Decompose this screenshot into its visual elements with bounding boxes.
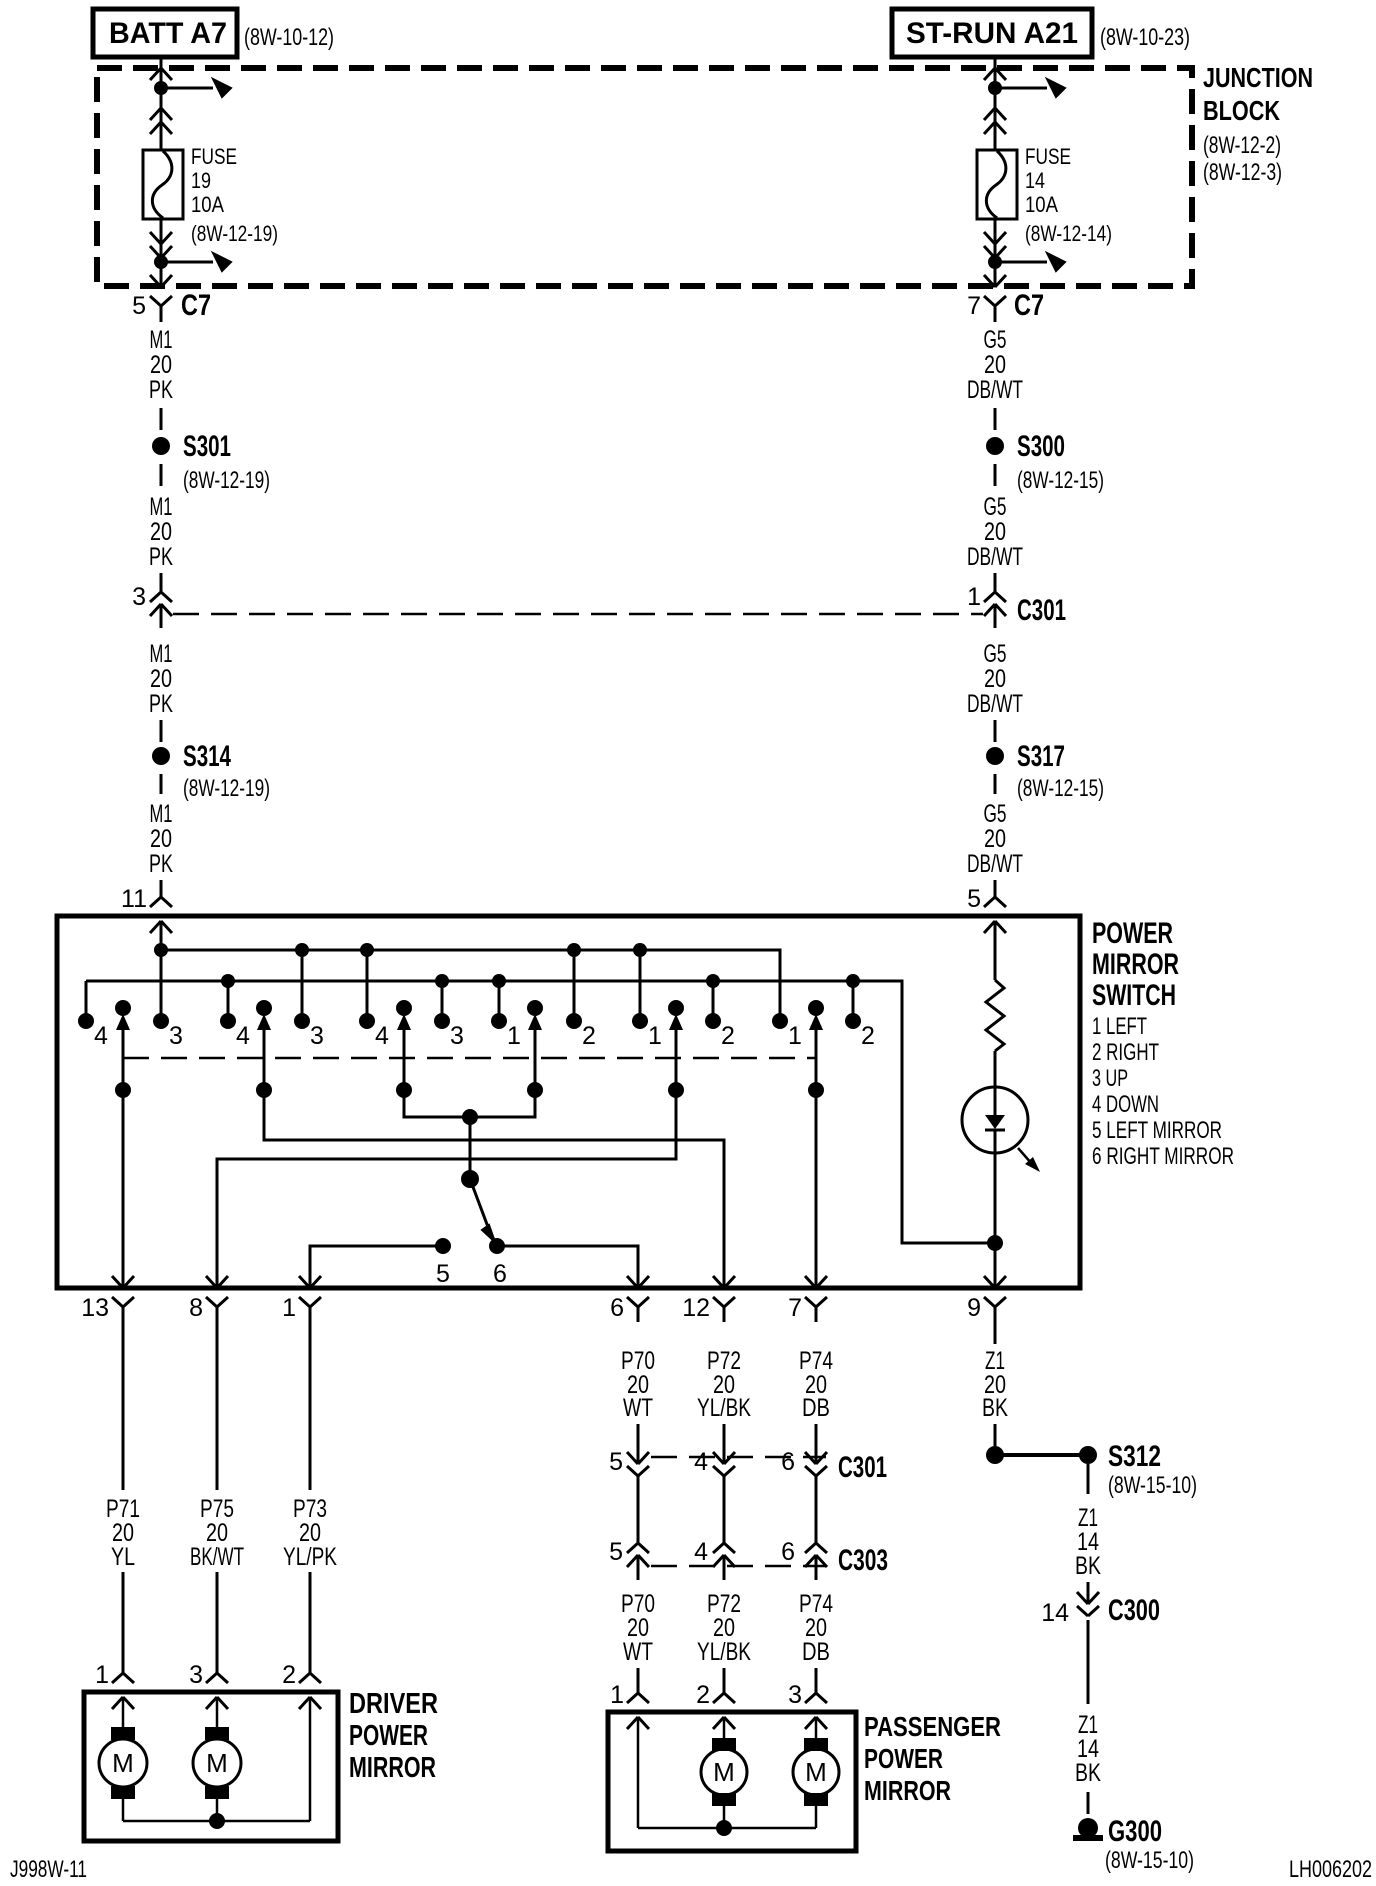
wire C300 down: [1087, 1620, 1090, 1704]
svg-text:(8W-10-23): (8W-10-23): [1100, 24, 1190, 51]
contact 6 wire to pin 6: [497, 1246, 638, 1288]
wire fuse 19 output: [160, 219, 163, 287]
svg-text:M: M: [112, 1748, 134, 1778]
node splice (right bottom): [988, 255, 1002, 269]
svg-text:S317: S317: [1017, 740, 1065, 773]
svg-text:G5: G5: [984, 326, 1007, 354]
switch pin 9 exit: [984, 1276, 995, 1288]
wire segment: [160, 774, 163, 794]
wire label G5 20 DB/WT (fourth right): [967, 800, 1023, 878]
wire segment: [994, 774, 997, 794]
wire resistor to LED: [994, 1051, 997, 1087]
power mirror switch label: [1092, 917, 1234, 1170]
lower bus left drop to contact 4: [85, 981, 88, 1021]
svg-text:1: 1: [95, 1661, 109, 1689]
svg-text:3 UP: 3 UP: [1092, 1065, 1128, 1092]
svg-text:DB: DB: [802, 1394, 830, 1422]
wire label Z1 20 BK: [982, 1347, 1008, 1422]
svg-text:6: 6: [610, 1294, 624, 1322]
passenger power mirror box: [608, 1712, 856, 1851]
wire segment: [160, 464, 163, 486]
svg-text:M: M: [805, 1757, 827, 1787]
selector blade: [470, 1179, 495, 1242]
svg-text:6 RIGHT MIRROR: 6 RIGHT MIRROR: [1092, 1143, 1234, 1170]
wire labels P70/P72/P74 (upper): [621, 1347, 833, 1422]
arm 6 wire to pin 7: [815, 1090, 818, 1288]
driver mirror pin 2 entry: [309, 1653, 312, 1673]
svg-text:J998W-11: J998W-11: [10, 1856, 87, 1883]
arm 1 wire to pin 13: [122, 1090, 125, 1288]
svg-text:19: 19: [191, 168, 211, 193]
feed box ST-RUN A21: [892, 9, 1092, 57]
svg-text:2: 2: [861, 1022, 875, 1050]
driver mirror pin 3 entry: [216, 1653, 219, 1673]
svg-text:DB/WT: DB/WT: [967, 543, 1023, 571]
svg-text:5 LEFT MIRROR: 5 LEFT MIRROR: [1092, 1117, 1222, 1144]
svg-text:(8W-12-19): (8W-12-19): [191, 221, 278, 246]
svg-text:YL/BK: YL/BK: [697, 1394, 751, 1422]
svg-text:11: 11: [121, 885, 147, 913]
selector contact 6: [489, 1238, 507, 1288]
svg-text:MIRROR: MIRROR: [864, 1775, 951, 1806]
svg-text:10A: 10A: [1025, 192, 1058, 217]
feed bus (upper bus): [161, 950, 780, 1021]
C303 dashed tie line: [651, 1565, 826, 1568]
svg-text:5: 5: [132, 292, 146, 320]
arm 2 wire to pin 12: [264, 1090, 724, 1288]
wire label G5 20 DB/WT (top right): [967, 326, 1023, 404]
fuse 14 label: [1025, 144, 1112, 246]
switch pin 1 exit: [299, 1276, 310, 1288]
svg-text:G5: G5: [984, 640, 1007, 668]
driver power mirror box: [84, 1692, 338, 1841]
passenger mirror motor 2 (left/right): [793, 1717, 839, 1828]
svg-text:JUNCTION: JUNCTION: [1203, 62, 1313, 93]
driver mirror common wire: [123, 1697, 310, 1821]
connector C300 pin 14: [1041, 1592, 1160, 1627]
svg-text:BK/WT: BK/WT: [190, 1543, 244, 1571]
connector C301 pin 3 (left): [132, 573, 172, 628]
wire LED to pin 9: [994, 1153, 997, 1288]
splice S314: [152, 740, 231, 773]
svg-text:M: M: [713, 1757, 735, 1787]
svg-text:BK: BK: [982, 1394, 1008, 1422]
junction block dashed outline: [97, 68, 1192, 286]
connector C301 row: [609, 1448, 887, 1490]
svg-text:4: 4: [694, 1538, 708, 1566]
svg-text:14: 14: [1025, 168, 1045, 193]
svg-text:S300: S300: [1017, 430, 1065, 463]
svg-text:20: 20: [984, 518, 1006, 546]
passenger mirror motor 1 (up/down): [701, 1717, 747, 1828]
svg-text:20: 20: [984, 351, 1006, 379]
svg-text:(8W-15-10): (8W-15-10): [1105, 1847, 1194, 1874]
svg-text:20: 20: [150, 518, 172, 546]
svg-text:M: M: [206, 1748, 228, 1778]
svg-text:PK: PK: [149, 543, 173, 571]
svg-text:(8W-12-2): (8W-12-2): [1203, 132, 1281, 159]
svg-text:DB/WT: DB/WT: [967, 850, 1023, 878]
svg-text:POWER: POWER: [1092, 917, 1173, 950]
svg-text:6: 6: [781, 1448, 795, 1476]
svg-text:3: 3: [310, 1022, 324, 1050]
selector common tie: [404, 1090, 535, 1179]
svg-text:1: 1: [507, 1022, 521, 1050]
connector C7 pin 5: [132, 275, 211, 322]
svg-text:M1: M1: [150, 326, 173, 354]
wire segment: [1087, 1464, 1090, 1494]
wire segment: [1087, 1582, 1090, 1604]
driver mirror label: [349, 1688, 438, 1784]
wire ST-RUN A21 to junction block: [994, 57, 997, 68]
svg-text:2: 2: [696, 1681, 710, 1709]
svg-text:PK: PK: [149, 376, 173, 404]
svg-text:BLOCK: BLOCK: [1203, 95, 1280, 126]
wire label M1 20 PK (top left): [149, 326, 173, 404]
svg-text:20: 20: [984, 665, 1006, 693]
svg-text:4: 4: [236, 1022, 250, 1050]
svg-text:12: 12: [682, 1294, 710, 1322]
svg-text:1: 1: [648, 1022, 662, 1050]
wire labels P71/P75/P73: [106, 1495, 337, 1571]
wires to driver mirror: [123, 1572, 310, 1655]
fuse 19 label: [191, 144, 278, 246]
svg-text:DB: DB: [802, 1638, 830, 1666]
svg-text:20: 20: [150, 665, 172, 693]
fixed contacts of switch: [78, 1013, 875, 1050]
svg-text:PASSENGER: PASSENGER: [864, 1711, 1001, 1742]
chevron into junction block (left): [150, 68, 161, 80]
svg-text:G5: G5: [984, 493, 1007, 521]
svg-text:PK: PK: [149, 690, 173, 718]
passenger mirror label: [864, 1711, 1001, 1806]
svg-text:C7: C7: [1014, 289, 1044, 322]
svg-text:2: 2: [721, 1022, 735, 1050]
svg-text:C300: C300: [1108, 1594, 1160, 1627]
svg-text:(8W-12-19): (8W-12-19): [183, 467, 270, 494]
connector C7 pin 7: [967, 275, 1044, 322]
switch pin 13 exit: [112, 1276, 123, 1288]
svg-text:MIRROR: MIRROR: [349, 1752, 436, 1784]
svg-text:G5: G5: [984, 800, 1007, 828]
svg-text:1: 1: [610, 1681, 624, 1709]
wire segment: [1087, 1792, 1090, 1814]
wire BATT A7 to junction block: [160, 57, 163, 68]
svg-text:4: 4: [375, 1022, 389, 1050]
selector contact 5: [435, 1238, 451, 1288]
ground G300: [1073, 1815, 1162, 1848]
svg-text:3: 3: [132, 583, 146, 611]
splice S312: [986, 1440, 1161, 1473]
wire fuse 14 output: [994, 219, 997, 287]
driver mirror motor 1 (up/down): [99, 1697, 147, 1821]
wire to fuse 14: [994, 68, 997, 150]
wire segment: [160, 408, 163, 430]
svg-text:5: 5: [609, 1538, 623, 1566]
svg-text:MIRROR: MIRROR: [1092, 948, 1179, 981]
svg-text:(8W-12-19): (8W-12-19): [183, 775, 270, 802]
switch pin 7 exit: [805, 1276, 816, 1288]
fuse F19 symbol: [143, 150, 183, 219]
wires C301 to C303: [638, 1490, 816, 1543]
svg-text:PK: PK: [149, 850, 173, 878]
node splice (left bottom): [154, 255, 168, 269]
svg-text:14: 14: [1041, 1599, 1069, 1627]
svg-text:10A: 10A: [191, 192, 224, 217]
verticals from buses to fixed contacts: [161, 950, 853, 1021]
svg-text:ST-RUN A21: ST-RUN A21: [906, 17, 1078, 50]
connector C301 dashed tie line: [173, 613, 983, 616]
selector pivot: [461, 1170, 479, 1188]
movable contact arms: [115, 1000, 824, 1098]
svg-text:YL: YL: [111, 1543, 135, 1571]
svg-text:DB/WT: DB/WT: [967, 376, 1023, 404]
svg-text:(8W-12-3): (8W-12-3): [1203, 159, 1282, 186]
node splice in junction block (right top): [988, 81, 1002, 95]
svg-text:3: 3: [450, 1022, 464, 1050]
svg-text:(8W-12-15): (8W-12-15): [1017, 467, 1104, 494]
C301 dashed tie line: [651, 1456, 826, 1459]
bus junction dots (upper): [154, 943, 168, 957]
driver mirror motor 2 (left/right): [193, 1697, 241, 1821]
power mirror switch box outline: [57, 916, 1080, 1288]
svg-text:LH006202: LH006202: [1289, 1856, 1372, 1883]
svg-text:G300: G300: [1108, 1815, 1162, 1848]
node LED return: [987, 1235, 1003, 1251]
branch arrow (right top): [995, 87, 1047, 90]
svg-text:6: 6: [781, 1538, 795, 1566]
svg-text:M1: M1: [150, 800, 173, 828]
svg-text:YL/BK: YL/BK: [697, 1638, 751, 1666]
illumination resistor: [986, 921, 1004, 1051]
mechanical coupling dashed line: [123, 1057, 816, 1060]
splice S317: [986, 740, 1065, 773]
svg-text:BATT A7: BATT A7: [109, 17, 227, 50]
junction block label: [1203, 62, 1313, 186]
wire labels P70/P72/P74 (lower): [621, 1590, 833, 1666]
svg-text:5: 5: [967, 885, 981, 913]
node splice in junction block (left top): [154, 81, 168, 95]
wire segment: [994, 408, 997, 430]
svg-text:20: 20: [150, 351, 172, 379]
branch arrow (left bottom): [161, 261, 213, 264]
wire label G5 20 DB/WT (third right): [967, 640, 1023, 718]
svg-text:6: 6: [493, 1260, 507, 1288]
wire label Z1 14 BK (lower): [1075, 1711, 1101, 1787]
wire label M1 20 PK (fourth left): [149, 800, 173, 878]
svg-text:FUSE: FUSE: [1025, 144, 1071, 169]
svg-text:2: 2: [282, 1661, 296, 1689]
svg-text:7: 7: [967, 292, 981, 320]
svg-text:4 DOWN: 4 DOWN: [1092, 1091, 1159, 1118]
svg-text:(8W-15-10): (8W-15-10): [1108, 1472, 1197, 1499]
svg-text:POWER: POWER: [864, 1743, 943, 1774]
contact 5 wire to pin 1: [310, 1246, 443, 1288]
switch pin 6 exit: [627, 1276, 638, 1288]
svg-text:YL/PK: YL/PK: [283, 1543, 337, 1571]
svg-text:SWITCH: SWITCH: [1092, 979, 1176, 1012]
switch pin 12 exit: [713, 1276, 724, 1288]
switch pin 5 entry: [994, 880, 997, 897]
svg-text:S314: S314: [183, 740, 231, 773]
svg-text:BK: BK: [1075, 1552, 1101, 1580]
wire pin 9 down: [994, 1322, 997, 1344]
svg-text:(8W-12-14): (8W-12-14): [1025, 221, 1112, 246]
passenger mirror common node: [716, 1820, 732, 1836]
wire segment: [994, 1424, 997, 1446]
wire pin 11 to feed bus: [160, 921, 163, 1021]
svg-text:M1: M1: [150, 493, 173, 521]
svg-text:3: 3: [189, 1661, 203, 1689]
svg-text:4: 4: [694, 1448, 708, 1476]
LED indicator arrow: [1018, 1148, 1040, 1172]
svg-text:BK: BK: [1075, 1759, 1101, 1787]
svg-text:POWER: POWER: [349, 1720, 428, 1752]
branch arrow (left top): [161, 87, 213, 90]
svg-text:2: 2: [582, 1022, 596, 1050]
svg-text:C303: C303: [838, 1544, 888, 1577]
wires pins 13 8 1 down: [123, 1322, 310, 1490]
wire label Z1 14 BK (upper): [1075, 1504, 1101, 1580]
bus junction dots (lower): [221, 974, 235, 988]
svg-text:13: 13: [81, 1294, 109, 1322]
svg-text:3: 3: [788, 1681, 802, 1709]
svg-text:2 RIGHT: 2 RIGHT: [1092, 1039, 1159, 1066]
svg-text:WT: WT: [623, 1638, 653, 1666]
double chevron down (right): [984, 232, 995, 244]
wire segment: [994, 464, 997, 486]
svg-text:20: 20: [150, 825, 172, 853]
svg-text:20: 20: [984, 825, 1006, 853]
splice S301: [152, 430, 231, 463]
svg-text:S312: S312: [1108, 1440, 1161, 1473]
branch arrow (right bottom): [995, 261, 1047, 264]
svg-text:(8W-10-12): (8W-10-12): [244, 24, 334, 51]
wire label M1 20 PK (second left): [149, 493, 173, 571]
wire label M1 20 PK (third left): [149, 640, 173, 718]
switch pin 11 entry: [160, 880, 163, 897]
svg-text:(8W-12-15): (8W-12-15): [1017, 775, 1104, 802]
passenger mirror pin 1 entry: [637, 1668, 640, 1693]
svg-text:DRIVER: DRIVER: [349, 1688, 438, 1720]
svg-text:7: 7: [788, 1294, 802, 1322]
feed box BATT A7: [93, 9, 237, 57]
wire label G5 20 DB/WT (second right): [967, 493, 1023, 571]
double chevron down (left): [150, 232, 161, 244]
connector C303 row: [609, 1538, 888, 1580]
wire segment: [994, 720, 997, 742]
driver mirror pin 1 entry: [122, 1653, 125, 1673]
svg-text:8: 8: [189, 1294, 203, 1322]
svg-text:4: 4: [94, 1022, 108, 1050]
svg-text:1: 1: [282, 1294, 296, 1322]
svg-text:3: 3: [169, 1022, 183, 1050]
switch pin 8 exit: [206, 1276, 217, 1288]
svg-text:WT: WT: [623, 1394, 653, 1422]
svg-text:S301: S301: [183, 430, 231, 463]
svg-text:1: 1: [788, 1022, 802, 1050]
wire segment: [160, 720, 163, 742]
fuse F14 symbol: [977, 150, 1017, 219]
passenger mirror pin 3 entry: [815, 1668, 818, 1693]
lower bus: [86, 981, 995, 1243]
svg-text:DB/WT: DB/WT: [967, 690, 1023, 718]
svg-text:C301: C301: [838, 1451, 887, 1484]
double chevron up (left): [150, 108, 161, 120]
chevron into junction block (right): [984, 68, 995, 80]
passenger mirror common wire: [638, 1717, 816, 1828]
wires to C301: [638, 1424, 816, 1464]
svg-text:5: 5: [609, 1448, 623, 1476]
passenger mirror pin 2 entry: [723, 1668, 726, 1693]
svg-text:FUSE: FUSE: [191, 144, 237, 169]
svg-text:5: 5: [436, 1260, 450, 1288]
svg-text:C301: C301: [1017, 594, 1066, 627]
illumination LED: [962, 1087, 1028, 1153]
connector C301 pin 1 (right): [967, 573, 1066, 628]
driver mirror common node: [209, 1813, 225, 1829]
svg-text:1 LEFT: 1 LEFT: [1092, 1013, 1147, 1040]
wire to fuse 19: [160, 68, 163, 150]
splice S300: [986, 430, 1065, 463]
double chevron up (right): [984, 108, 995, 120]
svg-text:9: 9: [967, 1294, 981, 1322]
svg-text:1: 1: [967, 583, 981, 611]
svg-text:C7: C7: [181, 289, 211, 322]
arm 5 wire to pin 8: [217, 1090, 676, 1288]
svg-text:M1: M1: [150, 640, 173, 668]
